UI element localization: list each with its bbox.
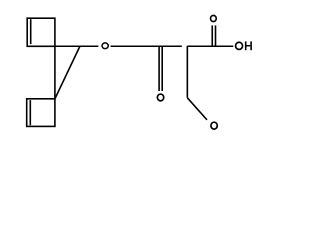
bond ester carbonyl carbon toward C4 (ends with gap) (160, 45, 182, 47)
atom H of hydroxyl letter: crossbar (246, 45, 250, 46)
acid C=O double bond line 2 (215, 25, 217, 46)
bond C2-C3 diagonal (55, 46, 80, 99)
atom O1 ester oxygen letter (102, 43, 108, 49)
atom O4 acid carbonyl oxygen letter (211, 15, 217, 21)
ester C=O double bond line 1 (158, 46, 160, 91)
bond C4 vertical down to CH2 (186, 46, 188, 98)
atom O of hydroxyl OH letter (236, 42, 243, 49)
bond C2-O1 (80, 45, 99, 47)
bond O1 to ester carbonyl carbon (111, 45, 160, 47)
ester C=O double bond line 2 (161, 46, 163, 91)
bond C1-C2 horizontal (55, 45, 80, 47)
atom H of hydroxyl letter: right stem (250, 41, 252, 50)
bottom cyclobutene ring (27, 99, 55, 127)
bond C4-C5-OH horizontal (187, 45, 233, 47)
top cyclobutene ring (27, 18, 55, 46)
bottom ring double bond inner line (29, 100, 31, 125)
top ring double bond inner line (30, 19, 32, 44)
atom H of hydroxyl letter: left stem (245, 41, 247, 50)
atom O3 bottom oxygen letter (211, 122, 217, 129)
bond C1-C3 spiro vertical (54, 46, 56, 99)
bond CH2-O3 diagonal (187, 98, 207, 120)
atom O2 ester carbonyl oxygen letter (157, 94, 163, 101)
acid C=O double bond line 1 (211, 25, 213, 46)
